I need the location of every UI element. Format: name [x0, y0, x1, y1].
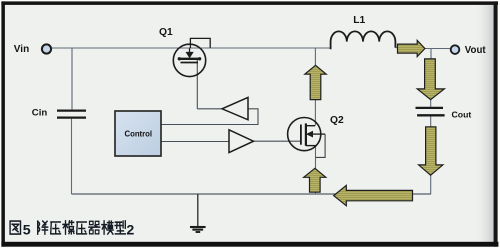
- char 压 (2): [77, 222, 87, 234]
- wire arrow D2 tip to bottom rail: [430, 175, 432, 194]
- char 稳: [63, 221, 74, 234]
- label L1: [353, 15, 365, 26]
- caption 图5 降压稳压器模型2: [10, 221, 134, 238]
- label Cout: [452, 109, 472, 119]
- current arrow left on bottom rail: [334, 185, 413, 205]
- wire Vout junction down to arrow D1: [430, 49, 432, 59]
- inductor L1: [331, 31, 396, 49]
- wire L1 to right arrow: [395, 47, 398, 49]
- label Cin: [32, 108, 48, 119]
- wire arrow D1 tip to Cout: [430, 99, 432, 107]
- current arrow down above Cout: [417, 59, 444, 100]
- char 压: [51, 222, 61, 234]
- char 型: [115, 221, 125, 234]
- wire Cin upper branch: [71, 48, 73, 110]
- current arrow up at switch node: [305, 65, 326, 99]
- char 图: [10, 221, 20, 234]
- svg-text:2: 2: [126, 222, 134, 238]
- wire Cin lower branch: [71, 119, 73, 194]
- capacitor Cin: [57, 111, 86, 118]
- wire buffer U2 output to Q2 gate: [254, 140, 302, 142]
- node Vout: [451, 45, 460, 54]
- wire buffer U1 input elbow to Control: [161, 109, 258, 125]
- wire top rail Vin to L1: [52, 47, 331, 49]
- capacitor Cout: [416, 108, 445, 115]
- svg-text:L1: L1: [353, 15, 365, 26]
- wire Q2 source to bottom rail: [315, 146, 317, 194]
- wire bottom rail: [72, 193, 432, 195]
- svg-text:Q1: Q1: [159, 27, 173, 38]
- buffer U2 (drives Q2, points right): [229, 130, 254, 153]
- label Q2: [330, 115, 344, 126]
- svg-text:Vin: Vin: [14, 44, 29, 55]
- svg-text:Vout: Vout: [465, 45, 487, 56]
- wire switch node vertical (rail to Q2 drain): [314, 48, 316, 126]
- svg-text:Control: Control: [125, 130, 153, 139]
- char 器: [89, 221, 100, 234]
- char 降: [38, 221, 48, 234]
- node Vin: [42, 44, 51, 53]
- char 模: [102, 221, 113, 234]
- wire Q1 gate lead down: [196, 60, 198, 109]
- transistor Q1: [173, 38, 210, 76]
- buffer U1 (drives Q1, points left): [222, 97, 248, 119]
- transistor Q2: [288, 118, 326, 158]
- label Q1: [159, 27, 173, 38]
- wire buffer U1 output to Q1 gate: [197, 108, 222, 110]
- label Vin: [14, 44, 29, 55]
- svg-text:Q2: Q2: [330, 115, 344, 126]
- wire Cout to arrow D2: [430, 116, 432, 126]
- svg-text:Cin: Cin: [32, 108, 48, 119]
- wire arrow tip to Vout node: [425, 48, 451, 50]
- current arrow right before Vout: [398, 40, 425, 56]
- ground: [190, 194, 206, 232]
- control block: [115, 111, 161, 156]
- current arrow down below Cout: [419, 127, 443, 175]
- wire Control to buffer U2 input: [161, 141, 229, 143]
- label Vout: [465, 45, 487, 56]
- current arrow up below Q2: [304, 168, 326, 192]
- svg-text:5: 5: [23, 222, 31, 238]
- svg-text:Cout: Cout: [452, 109, 472, 119]
